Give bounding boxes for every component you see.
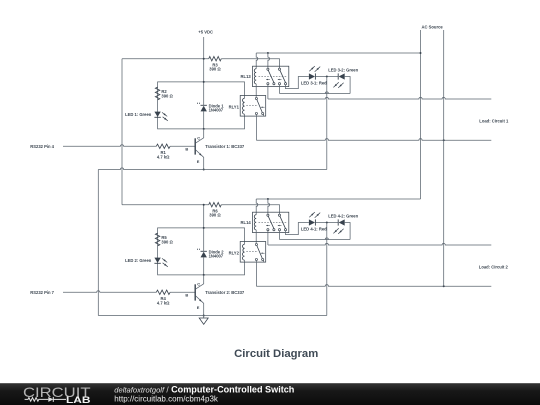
svg-text:B: B bbox=[185, 292, 188, 297]
svg-text:RLY2: RLY2 bbox=[229, 250, 240, 255]
svg-text:AC Source: AC Source bbox=[422, 25, 444, 30]
svg-text:LED 3-2: Green: LED 3-2: Green bbox=[328, 68, 358, 73]
svg-text:1N4007: 1N4007 bbox=[209, 108, 224, 113]
wire coil feed (hops bus) bbox=[256, 53, 258, 69]
wire indicator box module 2 bbox=[158, 228, 245, 275]
wire coil feed (hops bus) bbox=[256, 199, 258, 215]
relay RLY2 bbox=[229, 242, 266, 263]
svg-text:LED 4-2: Green: LED 4-2: Green bbox=[328, 214, 358, 219]
wire AC source rail right bbox=[443, 30, 445, 286]
wire red LED feed bbox=[286, 77, 309, 89]
svg-text:Load: Circuit 2: Load: Circuit 2 bbox=[479, 265, 509, 270]
wire AC bus module 2 bbox=[256, 198, 420, 200]
wire diode vertical module 1 bbox=[203, 59, 205, 129]
svg-text:LAB: LAB bbox=[66, 395, 91, 405]
svg-text:C: C bbox=[197, 135, 200, 140]
wire +5V rail to module 2 bbox=[121, 59, 123, 205]
svg-text:4.7 kΩ: 4.7 kΩ bbox=[157, 154, 170, 159]
svg-text:RS232 Pin 7: RS232 Pin 7 bbox=[30, 290, 54, 295]
svg-text:E: E bbox=[197, 159, 200, 164]
wire LED cathode rail bbox=[326, 77, 328, 170]
svg-text:LED 4-1: Red: LED 4-1: Red bbox=[301, 227, 327, 232]
wire AC source rail left bbox=[420, 30, 422, 199]
svg-text:E: E bbox=[197, 305, 200, 310]
wire red LED feed bbox=[286, 223, 309, 235]
svg-text:Transistor 2: BC337: Transistor 2: BC337 bbox=[205, 290, 245, 295]
diode Diode 1 1N4007 bbox=[201, 106, 207, 112]
svg-text:4.7 kΩ: 4.7 kΩ bbox=[157, 300, 170, 305]
resistor R3 bbox=[209, 57, 222, 61]
wire indicator box module 1 bbox=[158, 82, 245, 129]
transistor 1: BC337 bbox=[185, 129, 244, 170]
resistor R6 bbox=[209, 203, 222, 207]
wire AC bus module 1 bbox=[256, 52, 420, 54]
LED LED 4-2: Green bbox=[339, 219, 345, 225]
wire load circuit 2 hot bbox=[267, 231, 269, 245]
relay RL14 bbox=[241, 212, 289, 243]
wire green LED return bbox=[345, 223, 350, 240]
svg-text:390 Ω: 390 Ω bbox=[209, 213, 221, 218]
svg-text:390 Ω: 390 Ω bbox=[161, 93, 173, 98]
resistor R5 bbox=[155, 233, 159, 246]
wire diode vertical module 2 bbox=[203, 205, 205, 275]
wire green LED return bbox=[345, 77, 350, 94]
wire LED junction bbox=[315, 76, 338, 78]
wire emitter bus module 2 bbox=[98, 315, 326, 317]
svg-text:RL13: RL13 bbox=[241, 74, 252, 79]
wire emitter bus module 1 bbox=[98, 168, 326, 170]
wire LED cathode rail bbox=[326, 223, 328, 316]
wire bus to switch 2 common bbox=[221, 205, 279, 215]
svg-text:LED 3-1: Red: LED 3-1: Red bbox=[301, 81, 327, 86]
resistor R2 bbox=[155, 87, 159, 100]
LED LED 1: Green bbox=[154, 112, 160, 117]
LED LED 3-1: Red bbox=[309, 73, 315, 79]
svg-text:RL14: RL14 bbox=[241, 220, 252, 225]
relay RLY1 bbox=[229, 96, 266, 117]
LED LED 3-2: Green bbox=[339, 73, 345, 79]
wire +5V bus left bbox=[122, 58, 209, 60]
LED LED 4-1: Red bbox=[309, 219, 315, 225]
svg-text:+5 VDC: +5 VDC bbox=[198, 30, 213, 35]
wire load circuit 1 return bbox=[255, 115, 257, 141]
svg-text:390 Ω: 390 Ω bbox=[161, 239, 173, 244]
transistor 2: BC337 bbox=[185, 275, 244, 316]
LED LED 2: Green bbox=[154, 258, 160, 263]
wire +5V feed bus module 2 bbox=[122, 204, 209, 206]
wire load circuit 1 hot bbox=[267, 85, 269, 99]
svg-text:C: C bbox=[197, 281, 200, 286]
svg-text:LED 2: Green: LED 2: Green bbox=[125, 258, 152, 263]
ground bbox=[203, 316, 205, 319]
svg-text:Load: Circuit 1: Load: Circuit 1 bbox=[479, 119, 509, 124]
wire base input bbox=[63, 291, 156, 293]
relay RL13 bbox=[241, 66, 289, 97]
svg-text:RLY1: RLY1 bbox=[229, 104, 240, 109]
CircuitLab logo bbox=[23, 384, 91, 405]
wire load circuit 2 return bbox=[255, 261, 257, 287]
svg-text:http://circuitlab.com/cbm4p3k: http://circuitlab.com/cbm4p3k bbox=[114, 394, 219, 403]
wire base input bbox=[63, 145, 156, 147]
node switch1 common feed bbox=[267, 52, 269, 54]
svg-text:1N4007: 1N4007 bbox=[209, 254, 224, 259]
svg-text:B: B bbox=[185, 146, 188, 151]
wire bus to switch 2 common bbox=[221, 59, 279, 68]
diode Diode 2 1N4007 bbox=[201, 252, 207, 258]
svg-text:390 Ω: 390 Ω bbox=[209, 67, 221, 72]
wire LED junction bbox=[315, 222, 338, 224]
resistor R4 bbox=[156, 290, 170, 294]
svg-text:Transistor 1: BC337: Transistor 1: BC337 bbox=[205, 144, 245, 149]
wire +5V stub bbox=[203, 37, 205, 59]
svg-text:RS232 Pin 4: RS232 Pin 4 bbox=[30, 144, 54, 149]
resistor R1 bbox=[156, 144, 170, 148]
wire emitter rail to module 2 bbox=[97, 170, 99, 316]
svg-text:deltafoxtrotgolf / Computer-Co: deltafoxtrotgolf / Computer-Controlled S… bbox=[114, 384, 294, 394]
svg-text:Circuit Diagram: Circuit Diagram bbox=[234, 348, 318, 360]
svg-text:LED 1: Green: LED 1: Green bbox=[125, 112, 152, 117]
node switch1 common feed bbox=[267, 198, 269, 200]
